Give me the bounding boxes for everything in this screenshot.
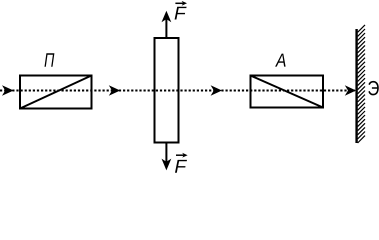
vector arrow over top F xyxy=(175,1,187,6)
label F bottom xyxy=(175,160,187,173)
force arrow up xyxy=(165,14,167,38)
wire: beam axis dotted line xyxy=(0,90,356,92)
screen hatching xyxy=(358,25,365,143)
force arrow down xyxy=(165,143,167,167)
label A xyxy=(275,54,286,67)
beam arrow 1 (input ray) xyxy=(2,85,14,96)
label F top xyxy=(175,7,187,20)
analyzer A diagonal xyxy=(251,76,324,108)
polarizer П diagonal xyxy=(20,76,92,109)
Kerr cell rectangle xyxy=(155,38,179,143)
beam arrow 2 xyxy=(109,85,120,96)
beam arrow 3 xyxy=(211,85,222,96)
label П xyxy=(45,53,55,66)
vector arrow over bottom F xyxy=(176,153,188,158)
analyzer A rectangle xyxy=(251,76,324,108)
polarizer П rectangle xyxy=(20,76,92,109)
beam arrow 4 (at screen) xyxy=(345,85,356,96)
label Э xyxy=(368,81,379,96)
screen wall line xyxy=(355,29,357,143)
